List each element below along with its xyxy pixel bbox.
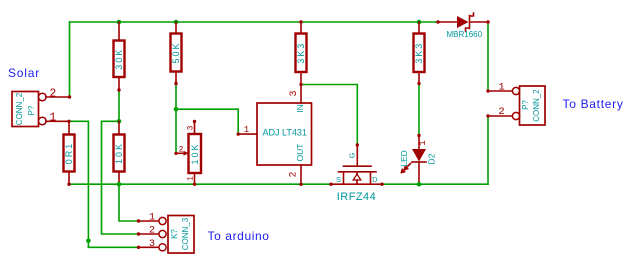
svg-text:To Battery: To Battery [563, 97, 624, 111]
resistor R 50K top stub [175, 22, 177, 34]
pin-end dot at R 3K3 top [299, 20, 302, 23]
resistor R 0R1 top stub [68, 121, 70, 134]
svg-text:P?: P? [27, 105, 36, 115]
svg-text:1: 1 [149, 213, 155, 224]
svg-text:3: 3 [149, 239, 155, 250]
connector K? pin 3 circle [159, 244, 166, 251]
transistor Q1 source leg [343, 172, 345, 184]
svg-text:D2: D2 [427, 153, 437, 164]
pin-end dot R 30K bottom [117, 88, 120, 91]
transistor Q1 drain leg [370, 172, 372, 184]
potentiometer RV1 wiper arrow [176, 152, 185, 154]
wire: return bus left section [69, 183, 331, 185]
resistor R 30K bottom stub [118, 77, 120, 90]
pin-end dot arduino pin3 wire [137, 246, 140, 249]
svg-text:50K: 50K [171, 41, 181, 63]
wire: to arduino pin 3 [88, 246, 138, 248]
pin-end dot Q1 drain [380, 183, 383, 186]
svg-text:To arduino: To arduino [208, 229, 270, 243]
resistor R 3K3 (led) body [414, 34, 425, 73]
junction LED cathode on bus [417, 182, 422, 187]
svg-text:3: 3 [289, 90, 300, 96]
pin-end dot R 0R1 bottom [67, 183, 70, 186]
wire: divider node to arduino pin 2 [102, 121, 139, 234]
diode D1 MBR1660 anode stub [438, 21, 457, 23]
wire: return bus right section [382, 183, 488, 185]
svg-text:0R1: 0R1 [64, 142, 74, 165]
svg-text:G: G [347, 152, 356, 158]
svg-text:Solar: Solar [8, 66, 40, 80]
svg-text:OUT: OUT [295, 144, 305, 162]
resistor R 3K3 (ref) top stub [300, 22, 302, 34]
svg-text:ADJ LT431: ADJ LT431 [263, 128, 307, 138]
connector K? pin 1 stub [139, 220, 160, 222]
pin-end dot D1 anode [436, 20, 439, 23]
connector P? solar pin 1 stub [46, 120, 69, 122]
pin-end dot solar pin2 [68, 95, 71, 98]
svg-text:MBR1660: MBR1660 [447, 30, 483, 39]
LED D2 cathode bar [412, 161, 426, 163]
svg-text:10K: 10K [114, 142, 124, 164]
connector K? body [168, 216, 194, 254]
junction on top rail at R 3K3b [417, 20, 422, 25]
pin-end dot arduino pin1 wire [137, 219, 140, 222]
pin-end dot battery pin1 wire [486, 89, 489, 92]
svg-text:CONN_2: CONN_2 [15, 92, 24, 125]
wire: battery pin 2 down to return bus [487, 116, 489, 184]
resistor R 10K bottom stub [118, 172, 120, 185]
pin-end dot RV1 pin1 [193, 183, 196, 186]
pin-end dot LED anode [417, 134, 420, 137]
resistor R 30K body [114, 41, 125, 78]
svg-text:3K3: 3K3 [414, 42, 424, 64]
wire: 50K bottom to pot wiper [175, 84, 177, 154]
pin-end dot R 50K bottom [174, 82, 177, 85]
resistor R 30K top stub [118, 22, 120, 41]
svg-text:2: 2 [179, 145, 184, 154]
pin-end dot at node solar- / R 0R1 top [67, 120, 70, 123]
op-amp U1 LT431 pin 1 stub [238, 133, 257, 135]
transistor Q1 gate stub [356, 145, 358, 166]
svg-text:1: 1 [418, 140, 428, 145]
pin-end dot Q1 source [329, 183, 332, 186]
LED D2 cathode stub [418, 162, 420, 184]
op-amp U1 LT431 body [257, 103, 312, 165]
pin-end dot R 3K3 (led) bottom [417, 82, 420, 85]
svg-text:CONN_3: CONN_3 [181, 217, 190, 250]
connector P? solar pin 2 circle [39, 93, 47, 101]
pin-end dot battery pin2 wire [486, 114, 489, 117]
resistor R 3K3 (ref) body [296, 34, 307, 73]
svg-text:2: 2 [498, 106, 504, 118]
svg-text:2: 2 [289, 171, 300, 177]
resistor R 3K3 (led) top stub [418, 22, 420, 34]
svg-text:1: 1 [186, 176, 195, 181]
svg-text:1: 1 [49, 112, 56, 125]
op-amp U1 pin 2 stub [300, 165, 302, 184]
svg-text:10K: 10K [190, 142, 200, 164]
resistor R 3K3 bottom stub into U1 pin 3 [300, 72, 302, 103]
junction on top rail at R 50K [174, 20, 179, 25]
junction at arduino pin3 corner [86, 239, 91, 244]
connector K? pin 3 stub [139, 246, 160, 248]
pin-end dot arduino pin2 wire [137, 232, 140, 235]
wire: 30K bottom to divider node [118, 90, 120, 121]
LED D2 anode stub [418, 136, 420, 150]
svg-text:S: S [336, 175, 341, 184]
wire: ADJ node to U1 pin 1 [176, 109, 238, 134]
junction ADJ node [174, 107, 179, 112]
wire: bus tap down to arduino pin 1 [119, 184, 139, 221]
wire: V+ down to battery pin 1 [487, 22, 489, 91]
connector P? battery pin 1 circle [512, 87, 519, 94]
pin-end dot U1 pin1 wire corner [237, 132, 240, 135]
resistor R 0R1 body [64, 135, 75, 172]
diode D1 cathode stub [471, 21, 489, 23]
junction divider node [117, 119, 122, 124]
wire: solar pin1 node to arduino pin3 column [69, 121, 88, 247]
potentiometer RV1 pin 3 stub [194, 122, 196, 135]
resistor R 50K bottom stub [175, 72, 177, 84]
potentiometer RV1 pin 1 stub [194, 173, 196, 184]
connector P? battery pin 2 stub [488, 115, 513, 117]
resistor R 3K3 (led) bottom stub [418, 72, 420, 84]
resistor R 50K body [171, 34, 182, 72]
connector P? solar pin 1 circle [39, 117, 47, 125]
svg-text:P?: P? [521, 100, 530, 110]
svg-text:3K3: 3K3 [296, 42, 306, 64]
diode D1 MBR1660 schottky cathode bar [466, 13, 474, 31]
svg-text:2: 2 [149, 226, 155, 237]
svg-text:30K: 30K [114, 48, 124, 70]
svg-text:K?: K? [170, 229, 179, 239]
pin-end dot D1 cathode [486, 20, 489, 23]
pin-end dot gate tap node [299, 83, 302, 86]
resistor R 10K top stub [118, 121, 120, 134]
connector P? battery body [520, 86, 546, 125]
connector K? pin 2 stub [139, 233, 160, 235]
resistor R 0R1 bottom stub [68, 172, 70, 185]
transistor Q1 source-drain bar [331, 183, 382, 185]
svg-text:CONN_2: CONN_2 [532, 89, 541, 122]
transistor Q1 gate plate [344, 165, 372, 167]
potentiometer RV1 wiper dot [174, 152, 177, 155]
connector K? pin 2 circle [159, 230, 166, 237]
wire: solar V+ vertical riser [69, 22, 71, 97]
potentiometer RV1 body [189, 134, 202, 173]
junction on top rail at R 30K [117, 20, 122, 25]
svg-text:1: 1 [498, 82, 504, 94]
svg-text:IRFZ44: IRFZ44 [337, 191, 376, 203]
diode D1 MBR1660 body [457, 16, 469, 28]
transistor Q1 channel plate [339, 171, 377, 173]
connector P? battery pin 2 circle [512, 112, 519, 119]
connector P? solar body [12, 92, 39, 127]
pin-end dot Q1 gate [356, 143, 359, 146]
svg-text:D: D [372, 175, 378, 184]
connector P? solar pin 2 stub [46, 96, 70, 98]
svg-text:1: 1 [244, 125, 249, 135]
LED D2 emission arrows [402, 164, 411, 173]
resistor R 10K body [114, 135, 125, 172]
svg-text:2: 2 [49, 88, 56, 101]
wire: 3K3 to LED anode [418, 84, 420, 136]
connector K? pin 1 circle [159, 217, 166, 224]
LED D2 body [412, 149, 426, 162]
wire: top V+ rail [70, 21, 439, 23]
svg-text:IN: IN [295, 104, 305, 113]
svg-text:3: 3 [186, 125, 195, 130]
svg-text:LED: LED [399, 150, 409, 167]
connector P? battery pin 1 stub [488, 90, 513, 92]
pin-end dot RV1 pin3 [193, 120, 196, 123]
pin-end dot U1 pin2 [299, 183, 302, 186]
junction 10K bottom on bus [117, 182, 122, 187]
transistor Q1 body-diode arrow [356, 172, 358, 174]
wire: U1 IN node to Q1 gate [301, 85, 357, 146]
